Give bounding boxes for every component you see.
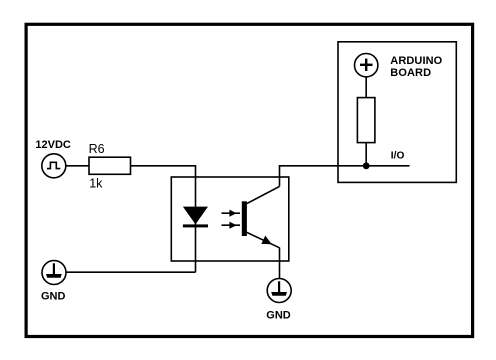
svg-text:ARDUINO: ARDUINO [390,55,442,67]
node I/O (junction dot) [363,162,370,169]
wire left ground to LED cathode [66,271,196,273]
svg-text:12VDC: 12VDC [35,139,71,151]
arduino board outline [338,42,456,183]
wire Q1 emitter to ground [279,248,281,279]
svg-text:I/O: I/O [391,150,405,161]
wire V1 to R6 [66,165,89,167]
resistor (arduino pull-up) [357,98,375,143]
wire R6 to LED anode (horizontal then down into optocoupler) [131,166,196,272]
voltage source V1 (12VDC pulse source) [42,154,66,178]
wire + source to pull-up resistor [365,77,367,98]
wire Q1 collector to I/O net [280,166,410,187]
svg-text:GND: GND [266,310,291,322]
svg-text:1k: 1k [89,177,103,191]
light arrow (upper) [222,210,241,217]
phototransistor Q1 [242,186,280,247]
ground symbol (left) [42,261,66,285]
light arrow (lower) [222,222,241,229]
LED D1 (optocoupler emitter diode) [183,207,208,228]
ground symbol (bottom, emitter) [267,279,291,303]
optocoupler U1 body [171,177,288,261]
svg-text:R6: R6 [89,142,105,156]
svg-text:BOARD: BOARD [390,67,431,79]
svg-text:GND: GND [41,290,66,302]
border frame (decorative) [26,24,473,336]
resistor R6 [89,157,131,174]
power source symbol (+) inside arduino [355,53,378,76]
wire pull-up resistor to I/O node [365,143,367,166]
